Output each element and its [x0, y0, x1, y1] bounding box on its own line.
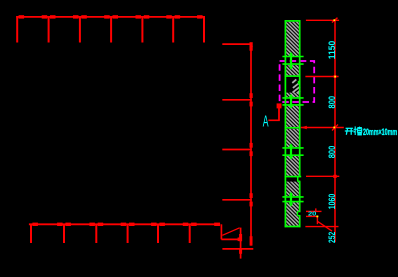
- svg-text:20mm×10mm: 20mm×10mm: [363, 127, 397, 137]
- top wall joint marks: [19, 15, 203, 18]
- dim slash arrow: [332, 125, 338, 131]
- section line vertical: [250, 43, 252, 245]
- dim junction blob y76: [334, 75, 337, 78]
- svg-text:1150: 1150: [327, 41, 338, 60]
- joint J2 lines: [282, 98, 303, 105]
- joint J2 pin: [289, 94, 293, 109]
- joint J1 lines: [282, 57, 303, 65]
- section tick thick marks: [250, 42, 253, 245]
- svg-text:20: 20: [308, 212, 316, 218]
- top wall studs: [17, 16, 204, 43]
- slot line mid: [285, 127, 301, 129]
- section tick y100: [222, 99, 252, 101]
- defpoint dots: [316, 19, 336, 217]
- stone panel 1 hatch: [286, 22, 299, 56]
- slot side stub: [298, 81, 300, 84]
- strip right edge lower: [299, 216, 301, 228]
- mini leader vertical: [316, 216, 318, 224]
- slot top line: [285, 75, 301, 77]
- svg-text:252: 252: [327, 232, 338, 243]
- slot cavity hatch fragments: [292, 79, 300, 93]
- annotation char kai: [345, 128, 354, 135]
- leader end blob: [277, 103, 282, 108]
- notch step vertical: [297, 177, 299, 182]
- stone panel 4 hatch: [286, 129, 299, 147]
- dimension extension y76: [305, 76, 338, 78]
- stone panel 6 hatch: [286, 182, 299, 197]
- strip right edge middle: [299, 181, 301, 211]
- mini leader diagonal: [317, 221, 332, 231]
- bottom notch outline: [297, 212, 300, 216]
- section tick y44: [222, 43, 252, 45]
- joint J3 lines: [282, 148, 303, 155]
- section tick y200: [222, 199, 252, 201]
- strip bottom edge: [285, 226, 301, 228]
- svg-text:A: A: [263, 113, 269, 130]
- strip right edge upper: [299, 20, 301, 176]
- stone panel 2 hatch lower: [286, 93, 299, 98]
- svg-text:800: 800: [327, 146, 338, 159]
- joint line y176: [285, 176, 302, 178]
- bottom wall studs: [31, 224, 190, 243]
- dim slash top: [332, 18, 338, 23]
- svg-text:1060: 1060: [327, 194, 338, 210]
- detail dashed box: [280, 61, 315, 102]
- mini extension y211: [306, 210, 322, 212]
- dim junction blob y176: [333, 175, 336, 178]
- top wall line: [16, 16, 204, 18]
- stone panel 5 hatch: [286, 156, 299, 176]
- dimension extension y176: [306, 175, 339, 177]
- dimension main line: [334, 20, 336, 242]
- mini extension stub: [315, 208, 317, 211]
- joint J1 pin: [289, 52, 293, 70]
- bottom notch cut: [297, 212, 299, 216]
- joint J4 lines: [282, 197, 303, 202]
- bottom right corner step: [221, 224, 253, 258]
- joint J4 pin: [289, 192, 293, 207]
- annotation char cao: [354, 126, 362, 135]
- slot arrow line: [301, 127, 344, 129]
- joint J3 pin: [289, 143, 293, 159]
- strip left edge: [284, 20, 286, 227]
- dimension extension bottom: [305, 226, 338, 228]
- bottom wall line: [29, 223, 220, 225]
- stone panel 7 hatch: [286, 202, 299, 225]
- slot arrow head: [301, 126, 307, 129]
- notch step bottom: [298, 180, 301, 182]
- bottom wall joint marks: [32, 223, 220, 226]
- svg-text:800: 800: [327, 96, 338, 109]
- stone panel 3 hatch: [286, 106, 299, 127]
- detail leader: [268, 104, 279, 120]
- corner break diagonal: [222, 228, 239, 236]
- dimension extension top: [306, 19, 339, 21]
- strip top edge: [285, 20, 301, 22]
- corner thick marks: [238, 234, 243, 254]
- section tick y149: [222, 149, 252, 151]
- stone panel 2 hatch upper: [286, 65, 299, 75]
- mini extension y216: [306, 215, 319, 217]
